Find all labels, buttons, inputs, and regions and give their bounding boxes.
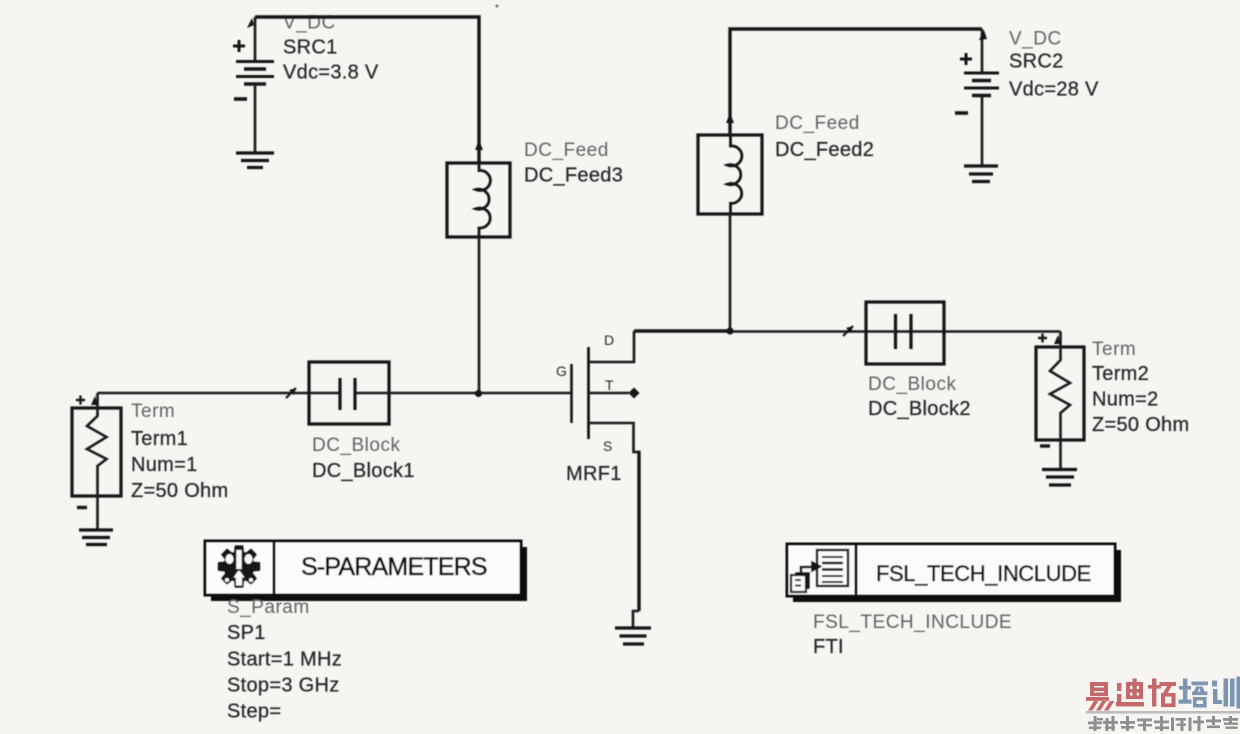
inductor DC_Feed3 [447,163,510,237]
svg-text:FSL_TECH_INCLUDE: FSL_TECH_INCLUDE [813,612,1012,633]
ground (below Term1) [79,530,113,545]
node junction at DC_Feed3 / gate wire [475,390,482,397]
label DC_Block2: DC_Block / DC_Block2 [868,374,971,420]
node junction drain / DC_Feed2 [726,327,733,334]
label DC_Feed2: DC_Feed / DC_Feed2 [775,113,874,161]
svg-text:DC_Block1: DC_Block1 [312,460,415,482]
svg-text:T: T [605,377,614,393]
svg-text:Term: Term [131,401,175,422]
wire DC_Feed3 to gate node [478,237,481,393]
svg-text:DC_Block: DC_Block [868,374,956,395]
voltage source SRC2 (V_DC battery) [955,29,999,165]
S-PARAMETERS controller block [205,541,527,601]
svg-text:DC_Feed: DC_Feed [524,140,609,161]
char xun [1212,677,1240,709]
pin arrow left of DC_Block2 [843,326,853,336]
svg-text:DC_Block: DC_Block [312,435,400,456]
svg-text:SRC2: SRC2 [1009,51,1064,73]
watermark slogan row [1088,716,1238,731]
wire DC_Feed2 to drain node [729,214,732,331]
svg-text:D: D [604,332,614,348]
char tuo [1148,679,1176,708]
wire Term1 to DC_Block1 (input net) [98,392,310,395]
FSL_TECH_INCLUDE block [787,544,1121,602]
char di [1116,679,1144,707]
svg-text:V_DC: V_DC [1009,29,1062,50]
capacitor DC_Block1 [309,362,389,424]
char yi [1086,682,1114,711]
svg-text:FSL_TECH_INCLUDE: FSL_TECH_INCLUDE [876,561,1091,586]
svg-text:DC_Feed: DC_Feed [775,113,860,134]
port Term1 (50 ohm termination) [72,393,121,529]
watermark logo (red+blue CJK) [1086,677,1240,732]
pin arrow left of DC_Block1 [286,388,296,398]
svg-text:G: G [556,363,567,379]
label DC_Feed3: DC_Feed / DC_Feed3 [524,140,623,187]
svg-text:Z=50 Ohm: Z=50 Ohm [131,480,228,502]
label SRC1: V_DC / SRC1 / Vdc=3.8 V [283,13,379,84]
port Term2 (50 ohm termination) [1036,332,1084,470]
svg-text:Term: Term [1092,339,1136,360]
ground (below SRC2) [964,166,998,182]
document icon (FSL include) [791,550,848,592]
wire drain rail (MRF1 drain to Term2) [634,329,730,332]
svg-text:MRF1: MRF1 [566,463,622,485]
wire SRC2 top rail to DC_Feed2 [730,29,982,135]
svg-text:S_Param: S_Param [227,597,310,618]
svg-text:FTI: FTI [813,636,844,658]
inductor DC_Feed2 [698,135,762,214]
svg-text:S-PARAMETERS: S-PARAMETERS [301,553,487,581]
label DC_Block1: DC_Block / DC_Block1 [312,435,415,482]
svg-text:Vdc=3.8 V: Vdc=3.8 V [283,62,379,84]
pin arrow at DC_Feed2 top [726,113,734,123]
scan speck artifact [495,4,498,7]
wire SRC1 top rail to DC_Feed3 [255,17,479,163]
transistor MRF1 (LDMOS FET) [572,331,640,627]
ground (below SRC1) [236,153,274,168]
svg-text:Term2: Term2 [1092,363,1149,385]
svg-text:Stop=3 GHz: Stop=3 GHz [227,675,340,697]
label Term1: Term / Term1 / Num=1 / Z=50 Ohm [131,401,228,502]
ground (below Term2) [1042,470,1077,486]
voltage source SRC1 (V_DC battery) [233,17,274,152]
gear icon (S-parameters) [219,546,259,586]
capacitor DC_Block2 [866,302,944,364]
ground (below MRF1 source) [615,628,651,644]
svg-text:SP1: SP1 [227,622,266,644]
svg-text:Term1: Term1 [131,428,188,450]
svg-text:S: S [603,438,612,454]
wire DC_Block1 to gate of MRF1 [389,392,571,395]
svg-text:Num=1: Num=1 [131,454,198,476]
svg-text:Z=50 Ohm: Z=50 Ohm [1092,414,1189,436]
watermark divider line [1086,711,1240,714]
char pei [1179,679,1209,708]
svg-text:DC_Feed2: DC_Feed2 [775,139,874,161]
pin arrow at DC_Feed3 top [475,140,483,150]
svg-text:Vdc=28 V: Vdc=28 V [1009,79,1099,101]
label SRC2: V_DC / SRC2 / Vdc=28 V [1009,29,1099,101]
svg-text:DC_Block2: DC_Block2 [868,398,971,420]
label FSL block: FSL_TECH_INCLUDE / FTI [813,612,1012,658]
label S_Param block: S_Param / SP1 / Start / Stop / Step [227,597,342,723]
svg-text:Start=1 MHz: Start=1 MHz [227,649,342,671]
svg-text:SRC1: SRC1 [283,37,338,59]
svg-text:Step=: Step= [227,701,281,723]
svg-text:Num=2: Num=2 [1092,389,1159,411]
label Term2: Term / Term2 / Num=2 / Z=50 Ohm [1092,339,1189,436]
svg-text:DC_Feed3: DC_Feed3 [524,165,623,187]
